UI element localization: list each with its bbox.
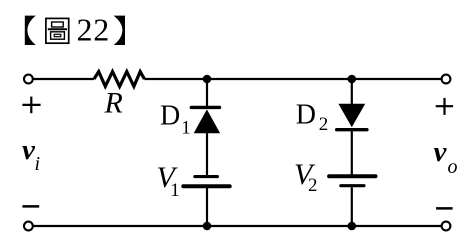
wire top-right (node B to output terminal): [352, 78, 441, 80]
wire node A down to D1 cathode: [206, 79, 208, 107]
svg-text:1: 1: [181, 118, 191, 139]
battery V2 (long plate top, short plate bottom): [329, 176, 375, 186]
svg-text:2: 2: [308, 175, 318, 196]
label vi: [22, 134, 40, 175]
wire top-middle (resistor to node B): [144, 78, 351, 80]
bottom wire: [33, 225, 441, 227]
output terminal top-right circle: [442, 75, 451, 84]
plus sign right: [436, 98, 453, 115]
title bracket left 【: [25, 16, 36, 45]
input terminal bottom-left circle: [24, 222, 33, 231]
node B junction dot (top of D2 branch): [348, 75, 357, 84]
svg-text:2: 2: [319, 114, 329, 135]
wire V1 down to bottom node: [206, 188, 208, 227]
label vo: [434, 136, 458, 178]
input terminal top-left circle: [24, 75, 33, 84]
diode D2 (pointing down, cathode bar on bottom): [337, 104, 367, 130]
svg-text:D: D: [160, 100, 180, 131]
svg-text:1: 1: [170, 180, 180, 201]
svg-text:R: R: [104, 87, 123, 120]
wire top-left (terminal to resistor): [33, 78, 94, 80]
svg-text:D: D: [296, 100, 316, 131]
svg-text:o: o: [448, 156, 458, 178]
wire node B down to D2 anode: [351, 79, 353, 105]
title number 22: [77, 12, 111, 48]
plus sign left: [22, 97, 40, 114]
label D1: [160, 100, 191, 138]
wire D2 cathode down to V2: [351, 130, 353, 175]
diode D1 (pointing up, cathode bar on top): [191, 107, 220, 133]
wire V2 down to bottom node: [351, 187, 353, 226]
label D2: [296, 100, 329, 135]
resistor R (zigzag): [94, 72, 144, 87]
minus sign left: [22, 205, 39, 208]
battery V1 (short plate top, long plate bottom): [183, 177, 229, 187]
title bracket right 】: [114, 16, 125, 45]
title character 圖: [46, 18, 69, 43]
minus sign right: [436, 207, 453, 210]
label R: [104, 87, 123, 120]
node A junction dot (top of D1 branch): [203, 75, 212, 84]
label V1: [157, 161, 180, 201]
label V2: [294, 158, 318, 196]
wire D1 anode down to V1: [206, 132, 208, 175]
svg-text:i: i: [35, 153, 41, 175]
bottom node D junction dot: [348, 222, 357, 231]
bottom node C junction dot: [203, 222, 212, 231]
output terminal bottom-right circle: [442, 222, 451, 231]
svg-text:v: v: [434, 136, 448, 168]
svg-text:22: 22: [77, 12, 111, 48]
